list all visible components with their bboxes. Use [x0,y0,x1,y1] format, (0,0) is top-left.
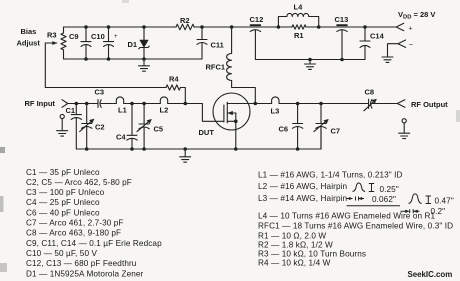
resistor R3 [47,27,66,59]
svg-text:L2: L2 [160,106,169,115]
svg-text:D1: D1 [128,40,138,49]
svg-text:R1: R1 [294,31,304,40]
inductor L3 [271,97,280,116]
svg-text:L1: L1 [118,106,127,115]
node RF Output terminal [397,100,448,109]
svg-text:L3: L3 [271,107,280,116]
svg-text:VDD = 28 V: VDD = 28 V [398,10,435,21]
svg-text:SeekIC.com: SeekIC.com [408,270,453,279]
node minus terminal [388,40,414,57]
svg-text:+: + [114,34,118,40]
inductor L2 [160,97,169,115]
svg-text:C10: C10 [91,32,105,41]
svg-text:Bias: Bias [21,27,37,36]
svg-text:C7: C7 [331,127,341,136]
svg-text:C7 — Arco 461, 2.7-30 pF: C7 — Arco 461, 2.7-30 pF [26,219,124,228]
capacitor C3 [95,88,105,108]
svg-text:L4 — 10 Turns #16 AWG Enameled: L4 — 10 Turns #16 AWG Enameled Wire on R… [258,212,436,221]
svg-text:C13: C13 [335,15,349,24]
ground (bias rail under D1) [139,59,150,71]
svg-text:C4: C4 [116,133,126,142]
wire ground rail (decoupling) [255,59,365,61]
capacitor C14 [360,25,385,59]
svg-text:C2: C2 [95,123,105,132]
svg-text:RFC1: RFC1 [206,63,226,72]
svg-text:C1: C1 [66,106,76,115]
wire output line [255,103,397,105]
svg-text:C12: C12 [250,15,264,24]
resistor R2 [176,16,194,30]
svg-text:0.062": 0.062" [372,195,396,204]
svg-text:C3 — 100 pF Unleco: C3 — 100 pF Unleco [26,188,105,197]
svg-text:C6 — 40 pF Unleco: C6 — 40 pF Unleco [26,208,100,217]
svg-text:C1 — 35 pF Unleco: C1 — 35 pF Unleco [26,168,100,177]
inductor L1 [116,97,126,115]
svg-text:+: + [409,26,413,33]
capacitor C12 (feedthru) [250,15,264,60]
node RF Input terminal [25,99,68,108]
resistor R1 [292,25,306,40]
ground (decoupling rail) [305,58,316,70]
node drain junction [254,102,258,106]
svg-text:RFC1 — 18 Turns #16 AWG Enamel: RFC1 — 18 Turns #16 AWG Enameled Wire, 0… [258,222,453,231]
svg-text:R3: R3 [47,31,57,40]
ground (main rail) [180,147,191,162]
svg-text:L2 — #16 AWG, Hairpin: L2 — #16 AWG, Hairpin [258,182,348,191]
wire input line [68,104,224,122]
capacitor C10 [91,25,118,61]
svg-text:C3: C3 [95,88,105,97]
svg-text:0.25": 0.25" [380,185,399,194]
node VDD label [398,10,435,21]
svg-text:L3 — #14 AWG, Hairpin: L3 — #14 AWG, Hairpin [258,194,348,203]
svg-text:C6: C6 [279,125,289,134]
ground (input jack) [57,114,68,136]
svg-text:C9: C9 [69,32,79,41]
node gate junction (R4) [184,102,188,106]
inductor L4 [277,3,321,29]
capacitor C11 [197,25,224,59]
ground (minus terminal) [382,57,393,62]
node Bias Adjust label [17,27,41,48]
parts list left column [26,168,162,278]
wire bias wiper arrow [45,41,166,87]
transistor DUT (MOSFET) [199,93,256,137]
capacitor C6 [279,102,303,151]
wire bias bottom rail [64,58,203,60]
capacitor C4 [116,102,137,151]
svg-text:Adjust: Adjust [17,39,41,48]
svg-text:RF Output: RF Output [411,100,448,109]
capacitor C5 (variable) [137,102,163,151]
capacitor C8 (variable, series) [364,88,377,111]
svg-text:0.2": 0.2" [431,207,446,216]
svg-text:C4 — 25 pF Unleco: C4 — 25 pF Unleco [26,198,100,207]
svg-text:–: – [409,42,413,49]
capacitor C13 (feedthru) [335,15,349,61]
svg-text:C10 — 50 µF, 50 V: C10 — 50 µF, 50 V [26,249,97,258]
zener diode D1 [128,25,150,61]
svg-text:R1 — 10 Ω, 2.0 W: R1 — 10 Ω, 2.0 W [258,231,326,240]
capacitor C7 (variable) [314,102,340,149]
svg-text:L4: L4 [294,3,304,12]
wire source lead [234,121,238,151]
svg-text:R2 — 1.8 kΩ, 1/2 W: R2 — 1.8 kΩ, 1/2 W [258,240,333,249]
svg-text:C11: C11 [211,41,224,50]
svg-text:C8: C8 [365,88,375,97]
svg-text:RF Input: RF Input [25,99,56,108]
svg-text:R4 — 10 kΩ, 1/4 W: R4 — 10 kΩ, 1/4 W [258,259,331,268]
capacitor C2 (variable) [80,102,105,151]
svg-text:L1 — #16 AWG, 1-1/4 Turns, 0.2: L1 — #16 AWG, 1-1/4 Turns, 0.213" ID [258,170,403,179]
svg-text:D1 — 1N5925A Motorola Zener: D1 — 1N5925A Motorola Zener [26,269,144,278]
svg-text:0.47": 0.47" [435,196,454,205]
svg-text:C12, C13 — 680 pF Feedthru: C12, C13 — 680 pF Feedthru [26,259,137,268]
capacitor C1 [66,102,82,149]
svg-text:R2: R2 [180,16,190,25]
wire main ground rail [76,129,321,150]
capacitor C9 [69,25,91,61]
parts list right column [258,170,453,267]
ground (output jack) [399,119,410,139]
svg-text:R3 — 10 kΩ, 10 Turn Bourns: R3 — 10 kΩ, 10 Turn Bourns [258,250,366,259]
svg-text:C14: C14 [370,32,385,41]
svg-text:C5: C5 [154,125,164,134]
svg-text:C2, C5 — Arco 462, 5-80 pF: C2, C5 — Arco 462, 5-80 pF [26,178,132,187]
note L3 hairpin symbol with dimensions [347,194,432,213]
svg-text:C8 — Arco 463, 9-180 pF: C8 — Arco 463, 9-180 pF [26,229,121,238]
svg-text:R4: R4 [169,75,179,84]
resistor R4 [166,75,185,104]
svg-text:C9, C11, C14 — 0.1 µF Erie Red: C9, C11, C14 — 0.1 µF Erie Redcap [26,239,162,248]
wire top rail [64,26,397,28]
svg-text:DUT: DUT [199,128,215,137]
note L2 hairpin symbol [353,183,375,192]
watermark SeekIC.com [408,270,453,279]
node VDD plus terminal [396,23,412,32]
inductor RFC1 [206,25,256,103]
